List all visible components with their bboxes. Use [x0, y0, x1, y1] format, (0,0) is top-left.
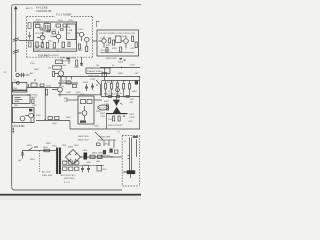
part below flyback2 — [118, 116, 120, 121]
resistor R106 vertical — [46, 43, 48, 49]
junction dot mid-left — [34, 79, 36, 81]
transistor Q101 — [40, 35, 45, 40]
CRT neck line 2 — [131, 138, 133, 171]
svg-text:2k: 2k — [120, 93, 122, 95]
power line wire — [22, 150, 56, 152]
junction dot rgb bottom1 — [106, 96, 107, 97]
svg-text:R102: R102 — [58, 20, 63, 22]
coil L2 — [28, 42, 31, 47]
resistor R202 — [113, 40, 115, 45]
svg-text:1k: 1k — [50, 36, 52, 38]
svg-text:R122: R122 — [78, 50, 83, 52]
wire break symbol lower — [13, 50, 19, 54]
left lower tick line — [12, 128, 14, 134]
svg-text:C811 C812 C813: C811 C812 C813 — [60, 175, 76, 177]
transistor Q202 — [124, 39, 129, 44]
power cluster small box b — [115, 150, 118, 153]
sound bottom resistor a — [106, 48, 108, 53]
svg-text:R803: R803 — [30, 159, 35, 161]
IF box small part c — [40, 28, 43, 30]
svg-text:TDA440 VIDEO: TDA440 VIDEO — [87, 70, 103, 73]
flyback lower wire — [70, 128, 140, 130]
CRT dashed box — [122, 136, 139, 187]
junction dot fb1 — [106, 96, 107, 97]
discriminator T201 — [116, 36, 122, 43]
svg-text:X401: X401 — [80, 94, 84, 96]
corner bracket mark — [97, 22, 100, 28]
IF transformer T101 — [44, 24, 51, 32]
svg-text:AC: AC — [19, 159, 22, 162]
svg-text:R475: R475 — [130, 114, 136, 116]
svg-text:VHF: VHF — [13, 88, 18, 90]
svg-text:R481 R482 R483: R481 R482 R483 — [104, 93, 120, 95]
CRT grid line short — [136, 140, 138, 158]
horizontal wire mid-left — [27, 87, 59, 89]
svg-text:R445: R445 — [83, 82, 89, 84]
transistor Q102 — [56, 34, 61, 39]
B+ wire — [81, 156, 113, 158]
dark det mark — [67, 58, 70, 60]
svg-text:C444: C444 — [90, 79, 96, 81]
svg-text:D805 R810: D805 R810 — [100, 156, 111, 158]
tuner box bottom dark line — [13, 90, 27, 91]
svg-text:C478: C478 — [128, 121, 133, 123]
border frame bottom line — [12, 187, 122, 191]
dark dot right of flyback — [123, 115, 125, 117]
RGB bottom wire — [58, 95, 140, 97]
border frame top line — [14, 4, 141, 6]
svg-text:TU-1 TUNER: TU-1 TUNER — [56, 13, 71, 17]
wire tuner input — [19, 40, 34, 42]
secondary box D811 — [63, 161, 67, 164]
secondary box C816 — [63, 167, 67, 170]
svg-text:R111: R111 — [48, 41, 52, 43]
Q101 leads — [37, 32, 43, 44]
junction dot A — [45, 119, 46, 120]
svg-text:CX-: CX- — [67, 27, 71, 29]
svg-text:D801: D801 — [74, 145, 79, 147]
svg-text:D801: D801 — [68, 147, 74, 149]
svg-text:4.7k: 4.7k — [56, 51, 60, 53]
svg-text:C452: C452 — [52, 123, 57, 125]
transistor Q103 — [79, 32, 83, 36]
resistor R312 — [40, 84, 44, 87]
small box BR2 — [53, 66, 62, 69]
capacitor C442 — [91, 83, 94, 90]
resistor R314 vertical — [46, 90, 48, 96]
svg-text:C815: C815 — [64, 161, 69, 163]
junction dot rgb top — [123, 80, 124, 81]
Q302 leads — [52, 84, 60, 97]
power diag wire — [95, 132, 103, 140]
resistor R121 vertical — [79, 44, 81, 49]
transformer winding left — [56, 149, 57, 173]
sound IC box — [97, 30, 139, 56]
main horizontal bus wire — [57, 76, 140, 78]
small box right cluster — [102, 73, 107, 77]
AC plug symbol — [21, 151, 24, 159]
bus tick 3 — [71, 76, 73, 80]
vert part under flyback — [107, 105, 109, 110]
svg-text:R451: R451 — [66, 117, 71, 119]
Q401 leads — [79, 106, 85, 120]
svg-text:V1: V1 — [124, 141, 126, 143]
capacitor C104 — [63, 24, 67, 27]
IC TDA box — [86, 68, 110, 73]
resistor R205 — [132, 36, 134, 42]
power cluster resistor2 — [110, 149, 113, 153]
svg-text:0.01: 0.01 — [36, 51, 40, 53]
svg-text:C474: C474 — [108, 119, 113, 121]
sound bottom resistor b — [120, 47, 122, 52]
small box BR — [56, 60, 63, 64]
transistor Q401 — [82, 111, 87, 116]
junction dot right wire — [121, 67, 122, 68]
small box on wire2 — [55, 117, 60, 120]
wire right mid — [100, 67, 140, 69]
RGB left vertical — [101, 81, 103, 97]
part below flyback — [113, 116, 115, 121]
RGB resistor 5 — [129, 84, 131, 90]
svg-text:R818: R818 — [84, 165, 89, 167]
antenna arrow head — [14, 6, 18, 9]
svg-text:R203: R203 — [112, 48, 117, 50]
Q102 leads — [53, 31, 59, 43]
svg-text:C322: C322 — [32, 105, 37, 107]
RGB resistor 1 — [105, 84, 107, 90]
CRT mid ticks — [128, 156, 130, 159]
power switch S801 — [29, 147, 39, 151]
transistor Q302 — [58, 87, 63, 92]
left block converter box — [12, 108, 34, 123]
svg-text:C436: C436 — [74, 67, 79, 69]
svg-text:C201: C201 — [100, 38, 105, 40]
secondary box C817 — [69, 167, 73, 170]
power transformer primary bar — [56, 148, 58, 175]
Q201 leads — [98, 36, 104, 47]
RGB leads up — [106, 81, 130, 84]
converter dark component — [29, 109, 32, 112]
sound box bottom parts — [100, 52, 134, 54]
border frame corner top-left — [12, 5, 14, 7]
svg-text:R808 C809: R808 C809 — [100, 137, 111, 139]
component on sub wire2 — [73, 85, 77, 88]
secondary box D812 — [69, 161, 73, 164]
bus tick 1 — [60, 76, 62, 80]
Q303 leads — [25, 116, 31, 123]
svg-text:133A: 133A — [67, 29, 72, 32]
UHF box inner marks — [15, 98, 23, 102]
antenna wire vertical — [15, 8, 17, 72]
video amp box — [78, 96, 94, 124]
resistor R110 vertical — [41, 43, 43, 48]
diagonal wire to x100 — [96, 80, 101, 96]
svg-text:50Hz 45W: 50Hz 45W — [42, 175, 53, 177]
bridge diode marks — [69, 153, 77, 161]
power cluster mid — [98, 140, 116, 148]
CRT neck line 1 — [129, 138, 131, 171]
speaker wire — [92, 40, 97, 42]
IF box bottom wire — [34, 48, 76, 50]
svg-text:R820: R820 — [46, 143, 51, 145]
svg-text:R484: R484 — [132, 91, 137, 93]
bridge rectifier diamond — [66, 150, 81, 165]
svg-text:L434: L434 — [62, 65, 66, 67]
svg-text:2k: 2k — [62, 86, 64, 88]
svg-text:R459: R459 — [94, 126, 99, 128]
vertical line left of TDA — [80, 57, 83, 66]
balun box — [31, 83, 37, 87]
left block tuner box — [12, 83, 27, 93]
svg-text:T101: T101 — [44, 22, 50, 24]
svg-text:C456: C456 — [100, 116, 106, 118]
CRT base left lead — [124, 171, 127, 173]
svg-text:ANT 75: ANT 75 — [26, 7, 34, 10]
svg-text:R477: R477 — [118, 125, 123, 127]
svg-text:L802: L802 — [96, 161, 100, 163]
IF box small part d — [47, 30, 50, 32]
vertical drop x104 — [104, 68, 106, 80]
secondary row wire — [62, 165, 104, 167]
svg-text:R456: R456 — [96, 111, 101, 113]
CRT base dark blob — [127, 170, 135, 174]
CRT below-base lead — [130, 174, 132, 178]
left block UHF box — [12, 95, 30, 104]
wire into video box — [66, 99, 78, 101]
svg-text:C446: C446 — [66, 92, 71, 94]
flyback side tick — [120, 103, 123, 105]
long wire video out — [94, 99, 102, 101]
fuse F801 — [44, 149, 50, 152]
svg-text:4.7 4.7: 4.7 4.7 — [64, 182, 71, 184]
video box part1 — [81, 100, 86, 104]
RGB leads down — [106, 89, 130, 96]
RGB resistor 3 — [117, 83, 119, 87]
svg-text:Q103: Q103 — [78, 29, 83, 31]
UHF side cap C321 — [32, 99, 34, 104]
svg-text:T801: T801 — [52, 146, 58, 148]
flyback top part2 — [117, 96, 120, 98]
svg-text:C216 R217: C216 R217 — [100, 50, 110, 52]
svg-text:Q305: Q305 — [36, 115, 41, 117]
IF module solid box — [33, 22, 76, 51]
CRT top text mark — [133, 136, 138, 138]
wire break symbol upper — [13, 38, 19, 42]
svg-text:H.OUT: H.OUT — [99, 108, 106, 110]
screen ellipse label — [98, 105, 108, 110]
secondary box C819 — [97, 166, 102, 172]
margin dash mark — [3, 72, 6, 73]
vertical tick video det — [68, 58, 70, 65]
balun tick — [28, 84, 30, 87]
secondary box D813 — [75, 161, 79, 164]
svg-text:R104: R104 — [40, 36, 45, 38]
Q301 leads — [54, 74, 61, 81]
wire from coupler — [26, 74, 30, 76]
svg-text:T201: T201 — [122, 36, 126, 38]
bus tick 2 — [65, 76, 67, 80]
RGB network top wire — [102, 80, 140, 82]
svg-text:C467: C467 — [134, 73, 139, 75]
IF box small part b — [68, 42, 70, 47]
transformer winding right — [60, 149, 61, 173]
svg-text:R801 115V: R801 115V — [92, 153, 103, 155]
svg-text:C821: C821 — [102, 169, 107, 171]
svg-text:SIF DET SOUND OUTPUT R209 C2: SIF DET SOUND OUTPUT R209 C210 — [99, 33, 136, 35]
svg-text:C801: C801 — [83, 150, 89, 152]
svg-text:C103: C103 — [68, 20, 73, 22]
filter cap C801 dark — [84, 153, 88, 160]
dark mark right top b — [124, 60, 126, 61]
svg-text:C105 R109: C105 R109 — [35, 33, 45, 35]
tuner box dial circle — [16, 81, 19, 84]
small box on wire — [48, 117, 53, 120]
svg-text:R466: R466 — [104, 73, 109, 75]
svg-text:C101: C101 — [36, 20, 41, 22]
flyback thick bottom wire — [106, 113, 128, 115]
RGB resistor 4 — [123, 84, 125, 90]
dashed enclosure box IF unit — [27, 17, 93, 58]
svg-text:R468: R468 — [118, 73, 123, 75]
svg-text:T801: T801 — [62, 145, 66, 147]
resistor R122 vertical — [86, 47, 88, 52]
flyback transformer T471 dark body — [113, 100, 120, 106]
regulator resistor R802 — [98, 155, 103, 158]
svg-text:1k: 1k — [108, 91, 110, 93]
wire flyback to bottom — [107, 97, 140, 130]
RGB resistor 2 — [111, 84, 113, 90]
resistor R108 vertical — [62, 42, 64, 48]
resistor R103 — [56, 24, 61, 27]
flyback top lead — [116, 96, 118, 100]
power cluster resistor — [103, 150, 106, 154]
svg-text:R431 C432 L433: R431 C432 L433 — [60, 58, 77, 60]
capacitor C441 — [85, 84, 88, 91]
svg-text:R455: R455 — [100, 113, 106, 115]
resistor R201 — [109, 38, 111, 43]
component on sub wire — [66, 81, 71, 84]
power cluster small box a — [97, 143, 101, 146]
svg-text:T471: T471 — [130, 99, 136, 101]
svg-text:R301 AGC: R301 AGC — [38, 55, 49, 58]
video box dark bottom — [80, 121, 86, 123]
junction dot fb3 — [123, 96, 124, 97]
IF box small part e — [61, 29, 64, 31]
secondary cap 4 — [81, 166, 84, 173]
RGB dark part — [135, 81, 138, 85]
sub wire y82 — [58, 82, 78, 84]
Q103 Q104 wires — [77, 33, 87, 46]
regulator resistor R801 — [90, 155, 95, 158]
svg-text:75: 75 — [14, 80, 16, 82]
transistor Q303 — [29, 113, 34, 118]
flyback lower triangle — [113, 107, 121, 113]
resistor R101 — [36, 25, 41, 28]
secondary cap 5 — [87, 166, 90, 173]
svg-text:R213: R213 — [106, 45, 111, 47]
svg-text:R332: R332 — [34, 69, 39, 71]
dashed vertical power — [39, 151, 41, 173]
svg-text:AC 220V: AC 220V — [42, 171, 51, 174]
svg-text:R806 C807: R806 C807 — [78, 140, 89, 142]
scan bottom dark band — [0, 194, 141, 196]
svg-text:C476: C476 — [130, 117, 136, 119]
svg-text:C205: C205 — [130, 48, 135, 50]
IC X101 sub box — [67, 24, 76, 40]
svg-text:R815 R816: R815 R816 — [64, 178, 75, 180]
junction power — [111, 156, 112, 157]
transistor Q301 — [58, 71, 63, 76]
junction dot rgb bottom2 — [123, 96, 124, 97]
svg-text:F801: F801 — [43, 147, 49, 149]
svg-text:R461 C462: R461 C462 — [106, 58, 117, 60]
video box part2 — [87, 100, 92, 104]
flyback top wire parts — [109, 96, 112, 98]
power transformer secondary bar — [59, 148, 61, 175]
svg-text:D803 C805: D803 C805 — [78, 136, 89, 138]
right edge vertical wire — [139, 76, 141, 97]
antenna input circle — [16, 73, 19, 76]
antenna coupler marks — [19, 73, 25, 77]
wire Q301 to Q302 — [60, 77, 62, 87]
long vertical wire mid — [44, 88, 46, 120]
svg-text:10k: 10k — [48, 68, 51, 70]
T101 core lines — [45, 25, 49, 30]
transistor Q201 — [102, 39, 106, 43]
mid bottom wire — [36, 121, 70, 130]
IF box small part a — [52, 32, 55, 34]
junction dot fb2 — [111, 96, 112, 97]
resistor R105 vertical — [36, 42, 38, 48]
svg-text:C434 R435: C434 R435 — [60, 61, 71, 63]
svg-text:S801: S801 — [27, 145, 33, 147]
svg-text:R438 C439: R438 C439 — [88, 76, 99, 78]
svg-text:1k: 1k — [112, 65, 114, 67]
flyback top part3 — [126, 96, 129, 98]
transistor Q104 — [85, 37, 89, 41]
resistor R206 — [135, 42, 137, 48]
svg-text:CHASSIS 2B: CHASSIS 2B — [36, 9, 52, 13]
resistor R107 vertical — [53, 43, 55, 49]
Q202 leads — [121, 36, 126, 49]
coil L1 — [28, 23, 31, 29]
border frame left line — [11, 7, 13, 186]
svg-text:R463: R463 — [118, 62, 124, 64]
secondary box C818 — [75, 167, 79, 170]
resistor R302 — [53, 72, 55, 77]
junction dot diag — [96, 84, 97, 85]
svg-text:R101: R101 — [35, 23, 41, 25]
svg-text:C331: C331 — [30, 63, 35, 65]
capacitor C1 — [28, 32, 31, 40]
transistor Q482 — [116, 88, 120, 92]
dark mark right top a — [120, 58, 123, 59]
svg-text:C451 B452: C451 B452 — [12, 125, 25, 128]
svg-text:220 220: 220 220 — [107, 82, 114, 84]
transistor Q304 — [20, 116, 25, 121]
wire to CRT — [112, 156, 122, 158]
resistor R437 vertical — [76, 60, 78, 66]
svg-text:10k: 10k — [96, 65, 99, 67]
